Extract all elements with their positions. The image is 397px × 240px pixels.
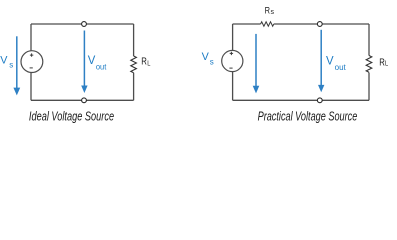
svg-text:V: V [0,54,8,66]
resistor Rs zigzag (practical) [261,22,274,26]
arrow Vout (practical) [318,30,324,93]
label Vout (ideal) [88,53,107,71]
label Vout (practical) [326,54,347,73]
wire top right segment (practical) [274,23,369,25]
svg-text:Ideal Voltage Source: Ideal Voltage Source [29,110,114,124]
label VS (practical) [202,51,214,66]
svg-text:Practical Voltage Source: Practical Voltage Source [258,110,358,124]
arrow VS (practical) [253,34,260,94]
svg-text:V: V [202,51,210,63]
label RL (practical) [379,58,388,69]
wire bottom (ideal) [31,99,134,101]
wire right upper (ideal) [133,24,135,56]
svg-text:V: V [88,53,96,67]
svg-text:R: R [141,57,147,68]
wire right lower (practical) [368,73,370,101]
arrow VS (ideal) [13,36,20,95]
wire left (ideal) [30,24,32,100]
resistor RL zigzag (ideal) [131,56,137,73]
svg-text:s: s [271,9,275,16]
label Rs (practical) [265,5,275,16]
svg-text:L: L [385,59,388,68]
wire top left segment (practical) [233,23,261,25]
voltage source VS circle (ideal) [21,51,43,73]
svg-text:R: R [379,58,385,69]
node bottom terminal (practical) [317,98,322,103]
wire left (practical) [232,24,234,100]
svg-text:out: out [96,62,107,71]
svg-text:s: s [210,58,214,67]
wire bottom (practical) [233,99,369,101]
node bottom terminal (ideal) [82,98,87,103]
svg-text:L: L [147,59,150,68]
wire right upper (practical) [368,24,370,56]
node top terminal (ideal) [82,22,87,27]
wire right lower (ideal) [133,73,135,101]
svg-text:R: R [265,5,270,16]
svg-text:s: s [9,60,13,69]
wire top (ideal) [31,23,134,25]
svg-text:V: V [326,54,334,68]
resistor RL zigzag (practical) [366,56,372,73]
arrow Vout (ideal) [81,31,87,94]
label VS (ideal) [0,54,13,69]
svg-text:out: out [335,63,347,72]
label RL (ideal) [141,57,150,68]
node top terminal (practical) [317,22,322,27]
voltage source VS circle (practical) [222,50,243,71]
